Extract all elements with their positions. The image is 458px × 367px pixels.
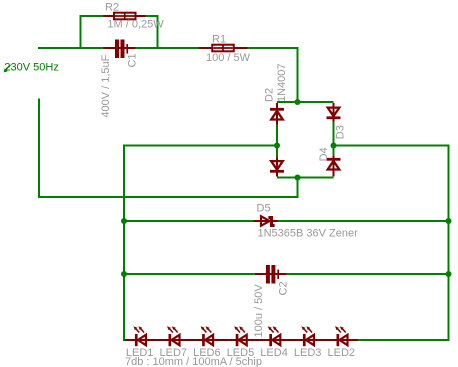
svg-text:1M / 0,25W: 1M / 0,25W	[107, 19, 164, 31]
svg-text:LED4: LED4	[260, 347, 288, 359]
svg-text:7db : 10mm / 100mA / 5chip: 7db : 10mm / 100mA / 5chip	[125, 356, 262, 367]
svg-text:1N5365B 36V Zener: 1N5365B 36V Zener	[258, 228, 359, 240]
svg-text:230V 50Hz: 230V 50Hz	[4, 61, 58, 73]
svg-text:1N4007: 1N4007	[276, 63, 288, 102]
svg-text:100u / 50V: 100u / 50V	[253, 284, 265, 338]
svg-text:LED3: LED3	[294, 347, 322, 359]
svg-text:100 / 5W: 100 / 5W	[206, 52, 251, 64]
svg-text:400V / 1,5uF: 400V / 1,5uF	[100, 54, 112, 117]
svg-text:C2: C2	[278, 281, 290, 295]
svg-text:D2: D2	[263, 88, 275, 102]
svg-text:D5: D5	[257, 203, 271, 215]
svg-text:LED2: LED2	[328, 347, 356, 359]
svg-text:D4: D4	[318, 147, 330, 161]
svg-text:R1: R1	[212, 34, 226, 46]
svg-text:C1: C1	[127, 53, 139, 67]
svg-text:R2: R2	[105, 2, 119, 14]
svg-text:D3: D3	[334, 125, 346, 139]
